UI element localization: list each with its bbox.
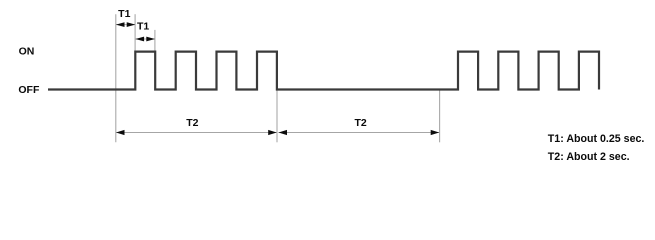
- dimension arrow T2 first (x 116-277, y 132.5): [116, 130, 277, 135]
- dimension arrow T2 second (x 278-439.5, y 132.5): [278, 130, 439, 135]
- svg-text:T1: About 0.25 sec.: T1: About 0.25 sec.: [548, 133, 645, 145]
- svg-text:T1: T1: [118, 8, 130, 20]
- extension line at end of first T2 (x=277): [276, 91, 278, 143]
- extension line at first falling edge (x=154.9): [154, 30, 156, 51]
- svg-text:ON: ON: [19, 46, 35, 58]
- svg-text:T1: T1: [137, 20, 149, 32]
- waveform ON/OFF square wave: [48, 52, 599, 90]
- svg-text:T2: T2: [186, 117, 198, 129]
- extension line at end of second T2 (x=439.6): [439, 91, 441, 143]
- svg-text:T2: About 2 sec.: T2: About 2 sec.: [548, 151, 630, 163]
- svg-text:OFF: OFF: [18, 84, 40, 96]
- svg-text:T2: T2: [354, 117, 366, 129]
- dimension arrow T1 first (x 116-135, y 24.6): [116, 22, 135, 27]
- extension line at start of T1 (x=115.8): [115, 14, 117, 142]
- dimension arrow T1 second (x 135-155, y 39): [135, 37, 155, 42]
- extension line at first rising edge (x=135.1): [134, 14, 136, 51]
